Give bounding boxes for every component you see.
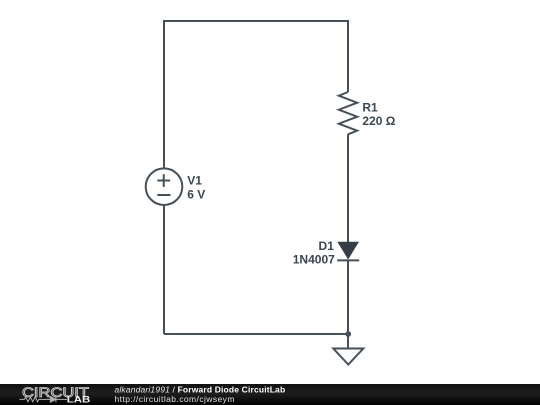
footer bar	[0, 384, 540, 405]
junction node	[345, 331, 351, 337]
wire right upper (top rail to R1)	[347, 20, 349, 92]
CircuitLab logo schematic line with resistor and diode	[19, 397, 67, 403]
svg-text:http://circuitlab.com/cjwseym: http://circuitlab.com/cjwseym	[115, 394, 235, 404]
diode D1	[337, 242, 359, 260]
svg-text:1N4007: 1N4007	[293, 252, 335, 266]
ground	[333, 349, 363, 365]
svg-text:220 Ω: 220 Ω	[362, 114, 395, 128]
resistor R1	[339, 92, 357, 134]
wire junction to ground	[347, 334, 349, 349]
wire D1 to junction	[347, 260, 349, 334]
svg-text:V1: V1	[187, 174, 202, 188]
svg-text:6 V: 6 V	[187, 188, 205, 202]
voltage source V1	[146, 168, 183, 205]
wire left upper (top rail to V1 top)	[163, 20, 165, 169]
svg-text:R1: R1	[362, 101, 378, 115]
wire bottom horizontal	[164, 333, 348, 335]
wire left lower (V1 bottom to bottom rail)	[163, 205, 165, 334]
svg-text:D1: D1	[319, 239, 335, 253]
wire top horizontal	[164, 20, 348, 22]
wire R1 to D1	[347, 134, 349, 243]
svg-text:LAB: LAB	[67, 395, 91, 405]
